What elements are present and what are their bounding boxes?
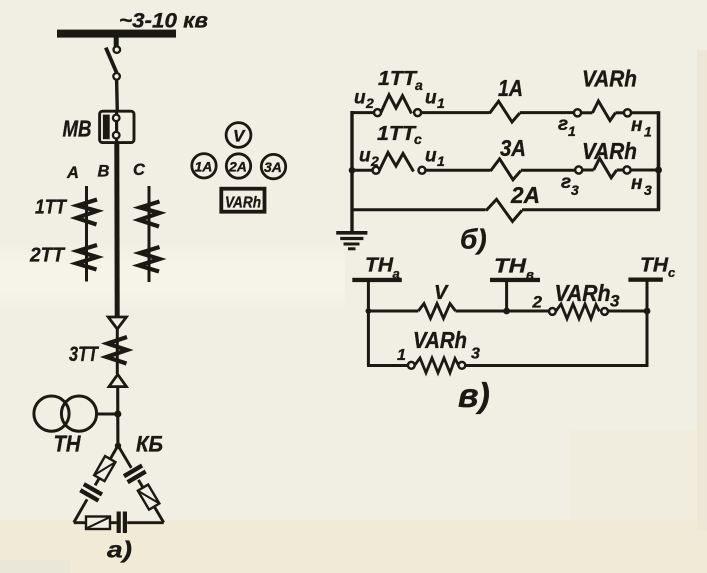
busbar 3-10 kV xyxy=(57,30,176,38)
wire coil to n3 xyxy=(617,169,624,172)
CT 2TT winding phase C xyxy=(139,247,160,272)
terminal n3 xyxy=(623,166,630,173)
svg-text:и: и xyxy=(425,146,437,167)
wire disconnector to breaker xyxy=(115,80,119,112)
svg-text:г: г xyxy=(558,114,568,135)
label u2 row2 xyxy=(359,146,379,170)
terminal u1 row2 xyxy=(419,167,426,174)
svg-text:3: 3 xyxy=(644,182,652,198)
label g1 xyxy=(558,114,576,139)
svg-text:2ТТ: 2ТТ xyxy=(29,245,66,267)
svg-text:2: 2 xyxy=(532,293,543,312)
disconnector blade xyxy=(106,48,117,73)
label VARh v top xyxy=(555,280,611,306)
wire delta bottom side xyxy=(74,521,164,524)
label V coil xyxy=(434,282,449,304)
terminal u1 row1 xyxy=(414,109,421,116)
svg-text:н: н xyxy=(631,115,643,136)
voltmeter coil V zigzag xyxy=(418,304,455,319)
svg-text:1ТТ: 1ТТ xyxy=(378,68,418,90)
svg-text:1: 1 xyxy=(437,153,445,169)
VT 3TT lower arrow triangle xyxy=(109,374,126,386)
current coil 3A xyxy=(491,159,521,180)
CT secondary winding 1TTc xyxy=(379,153,413,172)
label 1TTc xyxy=(377,123,422,147)
capacitor on delta bottom side xyxy=(119,512,125,534)
capacitor on delta left side xyxy=(80,484,102,501)
svg-text:С: С xyxy=(133,161,146,179)
fuse on delta bottom side xyxy=(86,517,110,530)
current coil 2A xyxy=(486,199,522,221)
svg-text:с: с xyxy=(668,265,676,280)
svg-text:А: А xyxy=(66,164,79,182)
wire delta left side xyxy=(74,446,118,523)
wire row2 to right bus xyxy=(631,169,659,172)
wire through breaker xyxy=(115,112,118,143)
svg-text:3: 3 xyxy=(471,346,480,363)
terminal node 3 top xyxy=(601,308,608,315)
voltage coil VARh v top xyxy=(556,304,600,319)
current coil 1A xyxy=(490,101,520,122)
fuse on delta right side xyxy=(138,485,160,510)
voltage coil VARh v bottom xyxy=(415,358,459,373)
label 2A coil xyxy=(510,182,540,208)
terminal THa bar xyxy=(352,278,402,282)
junction THc node xyxy=(644,308,651,315)
junction delta top node xyxy=(115,443,121,449)
wire row2 left xyxy=(352,169,373,172)
svg-text:н: н xyxy=(631,173,643,194)
ammeter 3A xyxy=(261,154,285,178)
wire v left vertical xyxy=(367,310,370,366)
wire bus to disconnector xyxy=(114,37,119,46)
wire row1 right xyxy=(520,111,574,114)
svg-text:а): а) xyxy=(107,537,132,563)
label TH xyxy=(54,431,81,457)
terminal u2 row1 xyxy=(374,109,381,116)
wire 3TT to delta xyxy=(116,387,119,446)
svg-text:2: 2 xyxy=(365,95,374,111)
wire coil to n1 xyxy=(616,111,625,114)
wire v top line middle xyxy=(456,310,549,313)
label n3 xyxy=(631,173,652,198)
meter VARh box xyxy=(221,189,264,212)
svg-text:3: 3 xyxy=(571,182,579,198)
svg-text:VARh: VARh xyxy=(555,280,611,306)
label VARh row1 xyxy=(582,66,637,92)
wire THa stem xyxy=(367,282,370,311)
svg-text:с: с xyxy=(414,131,422,147)
label node 2 xyxy=(532,293,543,312)
label u2 row1 xyxy=(354,88,374,112)
svg-text:и: и xyxy=(354,88,366,109)
ammeter 1A xyxy=(192,154,216,178)
svg-text:1: 1 xyxy=(644,124,652,140)
label 1TT xyxy=(35,197,68,219)
wire row1 to right bus xyxy=(631,111,659,114)
label 3A coil xyxy=(500,135,526,161)
svg-text:VARh: VARh xyxy=(413,327,467,353)
junction v top-left corner node xyxy=(366,308,372,314)
svg-text:КБ: КБ xyxy=(136,432,163,457)
terminal u2 row2 xyxy=(373,167,380,174)
svg-text:1: 1 xyxy=(397,347,406,364)
svg-text:VARh: VARh xyxy=(225,195,261,212)
svg-text:1ТТ: 1ТТ xyxy=(35,197,68,219)
voltmeter V xyxy=(226,123,251,148)
wire row2 middle xyxy=(425,169,490,172)
wire TH to feeder xyxy=(97,413,119,416)
label node 1 xyxy=(397,347,406,364)
svg-text:1А: 1А xyxy=(498,75,523,101)
svg-text:в): в) xyxy=(458,377,490,415)
wire THc stem xyxy=(646,282,649,312)
junction right bus row2 xyxy=(655,167,662,174)
disconnector lower contact xyxy=(113,73,120,80)
wire row2 right xyxy=(521,169,575,172)
junction left bus row2 xyxy=(349,167,356,174)
svg-text:2А: 2А xyxy=(510,182,540,208)
svg-text:1ТТ: 1ТТ xyxy=(377,123,417,145)
wire row3 left xyxy=(352,208,486,211)
wire left bus b xyxy=(350,111,353,233)
label node 3 bottom xyxy=(471,346,480,363)
wire phase C stub xyxy=(148,186,151,282)
terminal node 1 xyxy=(408,362,415,369)
terminal node 2 xyxy=(549,308,556,315)
svg-text:и: и xyxy=(425,88,437,109)
svg-text:V: V xyxy=(434,282,449,304)
wire v right vertical xyxy=(646,310,649,366)
label b) xyxy=(460,224,487,255)
wire phase A stub xyxy=(85,186,88,282)
ammeter 2A xyxy=(226,154,250,178)
terminal g1 xyxy=(574,109,581,116)
label u1 row1 xyxy=(425,88,445,112)
wire g1 to coil xyxy=(581,111,593,114)
label phase A xyxy=(66,164,79,182)
terminal node 3 bottom xyxy=(459,362,466,369)
circuit breaker MB box xyxy=(100,111,134,142)
label node 3 top xyxy=(610,292,620,311)
junction TH node xyxy=(114,410,121,417)
label ~3-10 kV xyxy=(119,9,208,33)
wire row3 right xyxy=(522,208,660,211)
capacitor on delta right side xyxy=(124,466,146,483)
terminal g3 xyxy=(575,166,582,173)
label n1 xyxy=(631,115,652,140)
svg-text:б): б) xyxy=(460,224,487,255)
svg-text:1А: 1А xyxy=(195,159,213,175)
CT 2TT winding phase A xyxy=(77,245,98,270)
transformer TH circles xyxy=(34,396,97,431)
svg-text:1: 1 xyxy=(568,123,576,139)
svg-text:V: V xyxy=(233,127,246,146)
wire v top line right xyxy=(608,310,649,313)
wire row1 middle xyxy=(421,111,490,114)
label 2TT xyxy=(29,245,66,267)
svg-text:1: 1 xyxy=(437,95,445,111)
wire right bus b xyxy=(657,111,661,210)
disconnector upper contact xyxy=(114,46,121,53)
wire g3 to coil xyxy=(582,169,594,172)
wire v top line left xyxy=(367,310,418,313)
VT 3TT winding xyxy=(107,329,128,374)
ground xyxy=(336,233,367,249)
svg-text:В: В xyxy=(98,163,110,181)
voltage coil VARh row1 xyxy=(593,101,616,121)
wire THb stem xyxy=(505,282,508,312)
label 1A coil xyxy=(498,75,523,101)
label phase C xyxy=(133,161,146,179)
label u1 row2 xyxy=(425,146,445,170)
svg-text:2А: 2А xyxy=(228,159,247,175)
junction THb node xyxy=(503,308,510,315)
label v) xyxy=(458,377,490,415)
wire row1 left xyxy=(351,111,375,114)
label phase B xyxy=(98,163,110,181)
wire delta right side xyxy=(118,446,164,523)
label 3TT xyxy=(69,343,100,366)
svg-text:г: г xyxy=(561,172,571,193)
svg-text:~3-10 кв: ~3-10 кв xyxy=(119,9,208,33)
svg-text:ТН: ТН xyxy=(54,431,81,457)
svg-text:ТН: ТН xyxy=(640,255,669,277)
svg-text:3ТТ: 3ТТ xyxy=(69,343,100,366)
svg-text:ТН: ТН xyxy=(365,255,394,277)
svg-text:МВ: МВ xyxy=(63,116,92,142)
svg-text:и: и xyxy=(359,146,371,167)
VT 3TT upper arrow triangle xyxy=(108,317,126,329)
label g3 xyxy=(561,172,579,198)
CT 1TT winding phase A xyxy=(77,200,98,225)
svg-text:3А: 3А xyxy=(264,159,282,175)
svg-text:ТН: ТН xyxy=(494,256,527,278)
svg-text:а: а xyxy=(415,77,423,93)
svg-text:VARh: VARh xyxy=(582,66,637,92)
voltage coil VARh row2 xyxy=(594,158,617,178)
label KB xyxy=(136,432,163,457)
label THb xyxy=(494,256,534,283)
wire v bottom line left xyxy=(367,364,408,367)
wire phase B main feeder xyxy=(114,143,119,317)
terminal n1 xyxy=(624,109,631,116)
terminal THc bar xyxy=(628,278,662,282)
label THc xyxy=(640,255,676,281)
CT 1TT winding phase C xyxy=(139,202,160,227)
label VARh v bottom xyxy=(413,327,467,353)
label THa xyxy=(365,255,400,282)
label VARh row2 xyxy=(582,138,637,164)
terminal THb bar xyxy=(490,278,540,282)
label a) xyxy=(107,537,132,563)
svg-text:VARh: VARh xyxy=(582,138,637,164)
svg-text:3: 3 xyxy=(610,292,620,311)
label 1TTa xyxy=(378,68,423,93)
fuse on delta left side xyxy=(94,456,115,481)
breaker contact circles xyxy=(113,115,120,139)
CT secondary winding 1TTa xyxy=(381,95,412,114)
svg-text:3А: 3А xyxy=(500,135,526,161)
label MB xyxy=(63,116,92,142)
wire v bottom line right xyxy=(465,364,648,367)
